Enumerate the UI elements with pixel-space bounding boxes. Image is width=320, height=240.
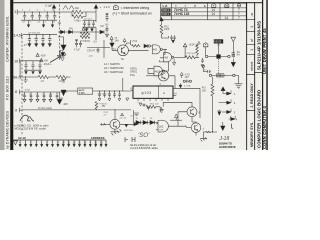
capacitor C14 — [88, 21, 91, 28]
resistor network RN1 tap e — [49, 92, 52, 99]
resistor R2 horizontal — [56, 75, 67, 78]
resistor R11 vertical long — [211, 84, 214, 99]
table header symbol pentagon 2 — [225, 3, 229, 7]
title block vertical rule 2 — [253, 2, 256, 150]
transistor Q3A circle top — [187, 107, 197, 117]
title block column 2 lower text COMPUTER LOGIC BOARD — [257, 90, 262, 148]
contact circle lower left — [202, 65, 204, 67]
legend intersheet symbol — [113, 5, 118, 9]
title block sheet column tick dividers — [246, 19, 255, 55]
sheet partition dashed line — [58, 5, 60, 57]
connector pin arrow 4 — [229, 116, 235, 121]
wire from lower contact — [203, 68, 211, 74]
wire Q3A bottom down — [191, 117, 193, 122]
node 10 tick — [20, 59, 22, 64]
wire Q4A top joins Q3A bottom — [192, 121, 196, 124]
transistor Q7A internals — [121, 47, 125, 54]
table header labels — [162, 4, 209, 8]
power flag triangle on bus — [52, 5, 55, 12]
+5V flag triangle — [36, 53, 39, 56]
connector J1 left terminator triangle — [13, 141, 17, 145]
ground arrow under cap bank a — [27, 20, 29, 27]
capacitor C15 — [92, 21, 95, 28]
transistor Q2A circle — [158, 71, 168, 81]
capacitor C23 double on stem — [232, 52, 235, 58]
wire gate feed left — [130, 40, 132, 45]
pin stub U2 left — [131, 89, 133, 91]
capacitor C20 on rail — [97, 48, 100, 54]
resistor network RN1 tap a — [23, 92, 26, 99]
open triangle below pencil arrow — [61, 58, 64, 61]
wire left from U2 — [129, 90, 134, 110]
wire to supply arrow — [58, 36, 64, 38]
wire Q4A down — [195, 132, 197, 135]
capacitor C7 — [35, 35, 38, 44]
resistor network RN1 tap b — [30, 92, 33, 99]
capacitor C2 — [31, 12, 34, 20]
title block sheet-number column text — [249, 12, 254, 71]
wire triangle to rail — [170, 119, 182, 121]
resistor R9 horizontal — [185, 56, 199, 59]
transistor Q4A circle lower — [191, 123, 201, 133]
capacitor C3 — [38, 12, 41, 20]
wire from node9 bus down left of diode row — [132, 110, 134, 123]
wire down to Q1A — [114, 110, 116, 119]
resistor R3 horizontal — [72, 10, 86, 13]
binding spine black bar — [10, 0, 13, 150]
wire from triangle down — [232, 42, 234, 52]
gate U1B output bubble — [172, 56, 174, 58]
keyboard label plate — [214, 39, 223, 43]
wire Q3A top — [163, 102, 192, 107]
capacitor C5 — [53, 12, 56, 20]
gate U1A nand — [152, 45, 160, 54]
capacitor C22 — [201, 58, 204, 63]
scan background — [0, 0, 268, 150]
capacitor C4 — [46, 12, 49, 20]
wire contact to resistor — [212, 77, 214, 84]
connector pin arrow 2 — [219, 100, 232, 105]
table row2 device tag — [161, 13, 170, 16]
title block column 1 lower text READ ONLY MEMORY — [250, 83, 254, 147]
wire 5A7 bus — [22, 76, 71, 78]
transistor Q7A circle — [118, 45, 129, 56]
coupling capacitor C24 with junctions — [183, 80, 185, 82]
pencil circled mark — [60, 50, 66, 56]
ground G7 left of gates — [134, 113, 139, 116]
open triangle -8V right — [126, 98, 129, 101]
capacitor C19 — [79, 41, 82, 48]
transistor Q1A circle — [110, 119, 120, 129]
junctions second bus — [29, 34, 50, 35]
pentagon node K dot — [205, 44, 206, 45]
label stem marks — [217, 44, 219, 55]
wire U3 left — [64, 90, 78, 92]
wire top bus continuation — [57, 11, 72, 13]
resistor R1 horizontal — [38, 75, 49, 78]
junction dot 5A7 — [25, 76, 26, 77]
table row1 device tag — [161, 9, 170, 12]
resistor network RN1 tap c — [36, 92, 39, 99]
sheet partition dashed line left — [21, 37, 23, 135]
wire from Q7A emitter up — [125, 43, 131, 46]
power flag at Q2A — [180, 72, 183, 78]
rail tap capacitor C27 — [103, 91, 106, 98]
diode D6 — [143, 121, 147, 125]
resistor network RN1 tap d — [43, 92, 46, 99]
power arrow -10V — [57, 92, 62, 104]
capacitor C9 — [48, 35, 51, 44]
small cap top left — [61, 79, 66, 82]
wire U2 to right long — [173, 88, 200, 118]
title block divider in sheet column — [246, 73, 255, 76]
title block vertical rule 3 — [262, 0, 263, 150]
ground arrows node10 — [25, 70, 41, 74]
+5V flag near diodes — [82, 27, 85, 30]
junction dot pull-up — [185, 57, 186, 58]
supply arrow -8V big — [61, 90, 66, 96]
switch actuator block — [216, 54, 220, 58]
ground G6 — [200, 137, 207, 141]
wire second bus — [23, 34, 57, 36]
gate U1C output bubble — [163, 70, 165, 72]
ground G9 far left — [160, 107, 164, 112]
ground arrow small under C24 — [179, 83, 182, 87]
title block column 2 divider — [254, 71, 262, 74]
supply arrow -5V — [61, 37, 66, 50]
ground arrows under C6-C9 — [28, 44, 51, 47]
ground under 5A7 bus — [24, 77, 28, 83]
ground G5 — [235, 84, 243, 89]
wire diode row — [58, 31, 100, 33]
wire CP rail — [87, 47, 110, 49]
small resistor mush at J18 — [206, 131, 211, 133]
open ground triangles node8 row — [23, 99, 52, 102]
gate U1C output loop up — [160, 60, 169, 71]
capacitor C16 vertical — [106, 13, 109, 22]
wire R11 down long — [212, 99, 214, 132]
resistor R12 horizontal — [146, 105, 160, 108]
gate U1A output bubble — [160, 48, 162, 50]
supply arrow small — [61, 50, 65, 57]
power triangle mid right — [221, 87, 225, 94]
bubble after D4 — [148, 45, 150, 47]
resistor R7 vertical PU2 — [160, 25, 163, 36]
rails of C13-C15 — [83, 21, 97, 28]
small open triangle +5 — [198, 41, 201, 44]
pre-driver arrow into transistor — [110, 40, 114, 47]
title block drawing-number column upper text — [257, 21, 262, 70]
junction dots on top bus — [24, 11, 55, 12]
bracket marks right of connector — [125, 137, 135, 142]
power triangle above PU2 resistor — [160, 18, 163, 25]
wire from Q7A collector right — [128, 49, 146, 51]
capacitor C13 — [83, 21, 86, 28]
wire Q1A left — [100, 123, 110, 125]
capacitor C6 — [28, 35, 31, 44]
node 1 entry tick — [17, 10, 19, 15]
connector pin arrow 3 — [222, 109, 231, 114]
connector J1 pin numbers — [19, 141, 107, 144]
contact circle rail left — [209, 74, 211, 76]
pin 14 at U2 right — [173, 95, 176, 97]
wire lower rail of cap bank — [21, 19, 57, 21]
wire from rail right down — [235, 75, 238, 83]
sheet frame top border — [13, 2, 262, 3]
node 5A,7 tick — [20, 75, 22, 80]
wire lower rail node10 — [24, 69, 42, 71]
gate U4 nand big — [158, 120, 168, 132]
transistor Q1A internals — [113, 121, 116, 127]
ground arrow under C21 — [172, 40, 175, 43]
capacitor C12 — [38, 61, 41, 70]
capacitor C18 — [75, 39, 78, 47]
+5V open flag left of gates b — [123, 39, 126, 44]
intersheet pentagon node K — [203, 43, 208, 47]
node 8 tick — [20, 90, 22, 95]
wire U1B out to pull-up node — [174, 56, 185, 58]
+5V open triangle above gates — [174, 114, 178, 120]
lower rail with contacts — [212, 74, 233, 76]
diode D4 with bubble — [144, 44, 148, 47]
supply arrow below C23 — [231, 59, 235, 67]
capacitor C1 — [23, 12, 26, 20]
ground flag under U1B — [173, 59, 176, 66]
resistor R6 horizontal — [80, 36, 90, 39]
capacitor C17 vertical — [106, 26, 109, 33]
switch rail with contacts — [208, 56, 228, 58]
rail tap capacitor C26 — [98, 91, 101, 98]
diode D3 — [100, 30, 104, 33]
wire Q1A right with arrow — [120, 123, 138, 126]
gate U4 output wire — [168, 125, 186, 127]
table header symbol pentagon 1 — [212, 3, 216, 7]
diode D1 — [61, 30, 65, 33]
supply arrow at pin3 wire — [217, 110, 221, 116]
wire from diode area down — [95, 27, 97, 40]
wire U3 right to rail — [93, 90, 131, 92]
transistor Q2A internals — [162, 73, 165, 79]
wire pentagon to switch rail — [205, 47, 207, 55]
power triangle small at Q1A top — [121, 113, 124, 116]
power triangle +12V — [94, 5, 98, 12]
value labels cap bank row1 — [21, 10, 56, 24]
rail tap capacitor C28 — [108, 91, 111, 98]
pencil annotation arrow — [50, 56, 61, 63]
ground arrows below C13-C15 — [85, 27, 93, 31]
node 3,4,6 tick — [21, 33, 23, 38]
ground G8 under Q1A — [111, 129, 122, 135]
transistor Q3A internals — [191, 109, 194, 115]
title block vertical rule 1 — [245, 2, 248, 150]
table header symbol shunt — [237, 4, 240, 7]
white schematic page — [5, 0, 267, 150]
gate U4 input stubs — [156, 123, 158, 129]
junction at gate U4 out — [185, 126, 186, 127]
wire diode row — [133, 122, 158, 124]
supply arrow under pin4 — [221, 122, 225, 130]
small supply arrow on Q1A right wire — [125, 124, 128, 127]
title block outer edge column text — [262, 28, 267, 149]
junction node9 to Q1A — [114, 109, 115, 110]
rail tap capacitor C29 — [113, 91, 116, 98]
pin stubs U2 bottom — [138, 98, 168, 101]
IC U2 box — [133, 86, 173, 98]
wire U1A out — [162, 48, 167, 50]
open ground under C25 — [139, 103, 150, 109]
wire Q2A collector right — [169, 76, 175, 88]
wire Q3A left to junction — [178, 112, 187, 126]
node 9 tick arrow — [20, 108, 22, 113]
wire D4 to gate1 — [146, 46, 152, 50]
left margin rotated imprint text — [6, 16, 10, 149]
junction dot U1A out — [164, 49, 165, 50]
wire node9 long bus — [22, 109, 132, 111]
wire from R7 down and right — [162, 36, 169, 38]
wire Q4A left — [186, 127, 191, 129]
+5V open flag left of gates a — [110, 36, 113, 41]
IC U2 divider — [158, 86, 160, 98]
wire node8 bus — [21, 91, 67, 93]
gate U1C nand — [154, 66, 162, 76]
resistor R5 horizontal — [80, 32, 90, 35]
wire R12 down — [159, 107, 161, 112]
capacitor C11 — [31, 61, 34, 70]
dashed link below actuator — [218, 59, 220, 75]
inline component body — [217, 74, 225, 77]
wire Q1A down — [114, 129, 116, 132]
capacitor C21 pair — [170, 35, 175, 40]
IC power pin table frame — [161, 3, 247, 20]
contact circle rail right — [233, 74, 235, 76]
ground arrow under cap bank b — [42, 20, 44, 27]
connector J1 bus line — [14, 139, 106, 141]
title block column 1 lower divider — [246, 109, 255, 112]
connector pin arrow 1 — [223, 90, 231, 95]
diode D7 — [150, 121, 154, 125]
wire to +12V node — [86, 12, 96, 22]
ground arrow under cap bank c — [51, 20, 53, 27]
contact circle right — [228, 55, 230, 57]
gate U1B nand — [164, 53, 172, 62]
junction on long wire — [212, 131, 213, 132]
ground under C22 — [201, 65, 204, 67]
wire into transistor Q7A — [112, 47, 118, 50]
capacitor C25 under U2 — [143, 103, 146, 106]
capacitor C10 — [24, 61, 27, 70]
junction dots rail — [99, 91, 120, 92]
contact circle left — [205, 55, 207, 57]
transistor Q4A internals — [195, 125, 198, 131]
wire node10 bus — [20, 61, 42, 77]
resistor R8 horizontal small — [132, 45, 141, 48]
mush labels node8 row — [23, 94, 53, 96]
resistor R4 horizontal — [72, 12, 86, 18]
open ground triangles under rail caps — [98, 98, 121, 101]
diode D2 — [69, 30, 73, 33]
pull-down open triangle — [231, 37, 236, 42]
gate U1C input wires — [148, 68, 154, 73]
wire x122 vertical — [122, 78, 124, 91]
right scan edge — [266, 0, 268, 150]
+5V flag mid — [40, 59, 43, 62]
ground under C17 — [106, 34, 109, 37]
wire into Q2A base — [146, 75, 158, 77]
wire top bus — [19, 11, 57, 13]
intersheet chevrons — [63, 6, 74, 10]
connector J1 pins with arrows — [19, 140, 107, 147]
resistor network RN1 tap f — [56, 92, 59, 99]
capacitor C8 — [41, 35, 44, 44]
+5V open triangle at gate output — [183, 43, 187, 57]
wire down to U1B input — [160, 49, 165, 57]
resistor R13 vertical to node9 bus — [95, 102, 98, 110]
diode D5 — [136, 121, 140, 125]
resistor R10 vertical — [196, 44, 199, 56]
wire vertical x104 — [103, 40, 105, 58]
handwritten L mark — [232, 124, 234, 129]
rail tap capacitor C30 — [118, 91, 121, 98]
handwritten 2-1 annotation — [20, 115, 34, 121]
wire at bottom left of J18 — [204, 132, 218, 138]
IC U3 box left — [78, 88, 93, 94]
